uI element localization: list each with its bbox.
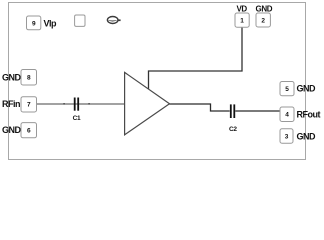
svg-text:GND: GND <box>297 132 317 142</box>
svg-text:Vlp: Vlp <box>44 19 58 29</box>
svg-text:9: 9 <box>32 20 36 27</box>
svg-text:GND: GND <box>2 125 22 135</box>
svg-text:4: 4 <box>285 112 289 119</box>
svg-text:2: 2 <box>261 18 265 25</box>
svg-text:GND: GND <box>2 73 22 83</box>
svg-text:5: 5 <box>285 86 289 93</box>
svg-text:C1: C1 <box>73 115 81 122</box>
svg-text:VD: VD <box>237 5 248 14</box>
svg-text:3: 3 <box>285 133 289 140</box>
svg-text:1: 1 <box>240 18 244 25</box>
svg-text:GND: GND <box>256 5 273 14</box>
svg-text:6: 6 <box>27 127 31 134</box>
svg-text:GND: GND <box>297 84 317 94</box>
svg-text:7: 7 <box>27 102 31 109</box>
svg-text:RFin: RFin <box>2 99 20 109</box>
svg-text:RFout: RFout <box>297 110 321 120</box>
svg-text:8: 8 <box>27 75 31 82</box>
svg-text:C2: C2 <box>229 126 237 133</box>
